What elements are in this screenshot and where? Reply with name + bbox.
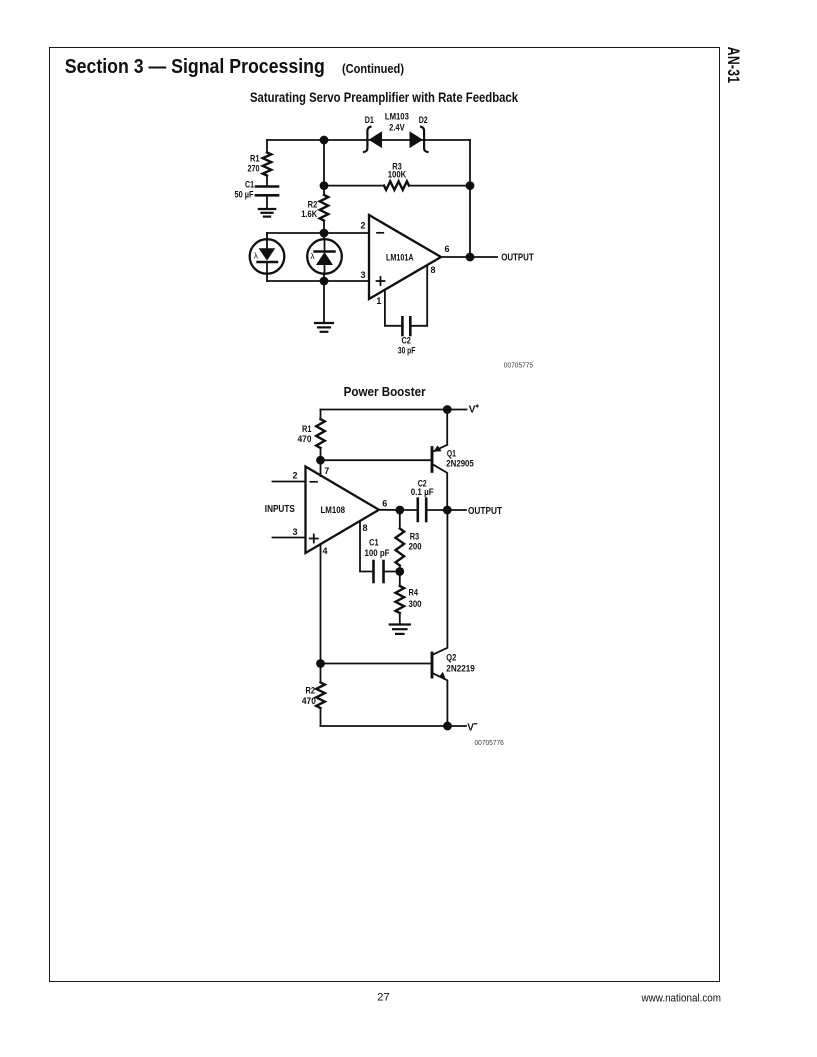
svg-text:AN-31: AN-31 <box>724 47 742 84</box>
svg-text:3: 3 <box>292 527 297 537</box>
svg-text:0.1 µF: 0.1 µF <box>411 487 434 497</box>
svg-text:8: 8 <box>363 523 368 533</box>
svg-text:V: V <box>469 405 476 416</box>
svg-text:2: 2 <box>360 220 365 230</box>
svg-text:LM108: LM108 <box>321 505 346 515</box>
svg-text:D2: D2 <box>419 115 428 125</box>
svg-text:3: 3 <box>360 270 365 280</box>
svg-text:300: 300 <box>409 599 422 609</box>
svg-text:INPUTS: INPUTS <box>265 504 295 515</box>
svg-text:Saturating Servo Preamplifier: Saturating Servo Preamplifier with Rate … <box>250 89 518 105</box>
svg-text:470: 470 <box>302 696 316 706</box>
svg-text:2.4V: 2.4V <box>389 123 405 133</box>
svg-text:270: 270 <box>248 163 260 173</box>
svg-text:7: 7 <box>324 466 329 476</box>
svg-text:λ: λ <box>254 251 259 261</box>
svg-text:D1: D1 <box>365 115 374 125</box>
svg-text:LM101A: LM101A <box>386 252 414 262</box>
svg-text:100K: 100K <box>388 170 407 180</box>
svg-text:OUTPUT: OUTPUT <box>468 505 502 517</box>
svg-text:C1: C1 <box>369 538 379 548</box>
svg-text:1.6K: 1.6K <box>301 209 317 219</box>
svg-text:www.national.com: www.national.com <box>641 992 721 1004</box>
svg-text:Section 3 — Signal Processing: Section 3 — Signal Processing <box>65 56 325 78</box>
svg-text:6: 6 <box>444 244 449 254</box>
svg-text:OUTPUT: OUTPUT <box>501 251 534 263</box>
svg-text:470: 470 <box>298 434 312 444</box>
svg-text:27: 27 <box>377 992 389 1004</box>
svg-text:C1: C1 <box>245 180 254 190</box>
svg-text:Power Booster: Power Booster <box>344 385 426 399</box>
svg-text:00705775: 00705775 <box>504 360 533 369</box>
svg-text:200: 200 <box>409 542 422 552</box>
svg-text:100 pF: 100 pF <box>365 548 390 558</box>
svg-text:R2: R2 <box>306 685 316 695</box>
svg-text:(Continued): (Continued) <box>342 62 404 76</box>
svg-text:00705776: 00705776 <box>475 738 504 747</box>
svg-text:R3: R3 <box>410 531 420 541</box>
svg-text:2: 2 <box>292 471 297 481</box>
svg-text:C2: C2 <box>401 336 411 346</box>
svg-text:1: 1 <box>376 296 381 306</box>
svg-text:50 µF: 50 µF <box>235 189 254 199</box>
svg-text:R1: R1 <box>250 153 260 163</box>
svg-text:R1: R1 <box>302 424 312 434</box>
svg-text:2N2219: 2N2219 <box>446 664 475 674</box>
svg-text:6: 6 <box>382 498 387 508</box>
svg-text:V: V <box>467 723 474 734</box>
svg-text:30 pF: 30 pF <box>398 346 416 356</box>
svg-text:Q2: Q2 <box>446 653 456 663</box>
svg-text:Q1: Q1 <box>447 448 456 458</box>
svg-text:2N2905: 2N2905 <box>446 458 474 468</box>
svg-text:8: 8 <box>431 265 436 275</box>
svg-text:R2: R2 <box>308 199 318 209</box>
svg-text:R4: R4 <box>409 588 419 598</box>
svg-text:4: 4 <box>323 546 328 556</box>
svg-text:LM103: LM103 <box>385 112 409 122</box>
